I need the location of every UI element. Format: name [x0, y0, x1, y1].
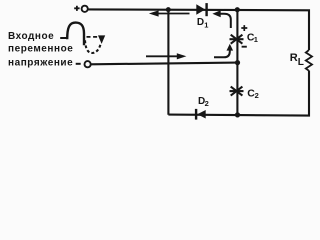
- svg-text:2: 2: [205, 99, 209, 108]
- svg-text:L: L: [298, 57, 304, 68]
- svg-text:1: 1: [204, 21, 208, 30]
- svg-text:переменное: переменное: [8, 43, 73, 54]
- svg-text:R: R: [290, 52, 298, 64]
- svg-text:Входное: Входное: [8, 31, 54, 42]
- svg-text:D: D: [197, 17, 204, 28]
- svg-text:2: 2: [255, 91, 259, 100]
- svg-text:напряжение: напряжение: [8, 58, 73, 69]
- svg-text:1: 1: [254, 35, 258, 44]
